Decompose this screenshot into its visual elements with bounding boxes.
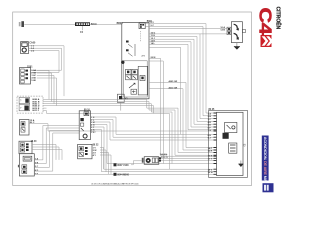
svg-text:2 V: 2 V — [142, 55, 146, 57]
svg-text:C4: C4 — [255, 8, 274, 35]
svg-text:8 H: 8 H — [208, 135, 212, 137]
svg-text:5 6E: 5 6E — [31, 80, 36, 82]
wire heater h6 — [90, 130, 213, 172]
svg-text:80 25: 80 25 — [209, 109, 215, 111]
roof switch component — [231, 22, 242, 43]
wire connector c3 — [37, 76, 54, 104]
blower unit inner box 2 — [229, 143, 237, 153]
Citroen chevron emblem — [261, 35, 274, 47]
blower unit block right — [209, 111, 248, 178]
svg-text:17 T: 17 T — [208, 159, 213, 161]
wire dashed box d2 — [43, 111, 154, 114]
ground blower unit — [238, 164, 243, 167]
wire heater h5 — [90, 127, 213, 169]
wire ignition 3 — [28, 51, 59, 73]
wire control unit f4 — [34, 133, 79, 171]
wire motor out 2 — [161, 160, 214, 162]
BSI switch arrow — [129, 83, 135, 88]
wire dashed box e3 — [43, 104, 172, 164]
wire BSI a1 — [145, 24, 213, 113]
fuse tick wire — [82, 26, 84, 30]
wire motor out 1 — [161, 157, 214, 159]
svg-text:80 22: 80 22 — [93, 144, 99, 146]
svg-text:1 A: 1 A — [35, 158, 39, 161]
roof switch pin 2 — [227, 31, 231, 34]
svg-text:80 10: 80 10 — [84, 109, 90, 111]
blower switch lower — [78, 144, 92, 158]
fuse strip F1 — [75, 22, 90, 26]
svg-text:7 G: 7 G — [208, 130, 212, 132]
svg-text:8044 M000: 8044 M000 — [117, 174, 129, 177]
ground roof switch — [234, 47, 240, 50]
battery supply BB00 — [19, 21, 24, 27]
BSI small box bottom — [131, 89, 137, 94]
label motor — [160, 154, 168, 156]
BSI unit box — [122, 22, 149, 98]
wire control unit f1 — [34, 126, 79, 160]
labels ignition pins — [31, 46, 35, 53]
svg-text:8011 F: 8011 F — [32, 110, 39, 112]
svg-text:8 V: 8 V — [151, 22, 155, 24]
svg-text:8007 V100: 8007 V100 — [117, 165, 129, 167]
wire BSI b2 — [149, 61, 163, 164]
Citroen C4 logo text — [255, 7, 281, 35]
svg-text:CA00: CA00 — [29, 41, 36, 44]
svg-text:7 S: 7 S — [91, 132, 95, 134]
connector block upper-left — [20, 68, 31, 85]
BSI internal dashed line — [140, 31, 142, 42]
svg-text:9 C: 9 C — [151, 25, 155, 27]
svg-text:1 A: 1 A — [208, 112, 212, 115]
labels control unit pins — [35, 158, 39, 176]
labels connector mid-left — [30, 119, 35, 124]
BSI relay box 2 — [132, 69, 137, 74]
wire lower-left g3 — [32, 150, 62, 160]
wire connector c4 — [37, 78, 57, 106]
wire BSI a5 — [149, 39, 214, 124]
svg-text:3 C: 3 C — [208, 119, 212, 121]
wire roof switch ground — [236, 43, 238, 47]
BSI top connector — [139, 23, 145, 29]
svg-text:C001: C001 — [27, 66, 33, 68]
BSI tall inner rect — [138, 66, 148, 95]
wire BSI a2 — [145, 27, 213, 116]
wire dashed box e2 — [43, 102, 214, 156]
svg-text:8036 W: 8036 W — [161, 157, 168, 159]
labels BSI c wires — [169, 80, 178, 89]
page border frame — [13, 12, 252, 186]
wire control unit f5 long bottom — [34, 173, 213, 175]
wire BSI a7 — [149, 44, 214, 129]
wire connector mid-left — [29, 124, 214, 131]
svg-text:12 B: 12 B — [220, 29, 225, 31]
wire BSI c2 — [149, 89, 214, 150]
labels connector pins — [31, 69, 36, 82]
wire dashed box e1 — [43, 99, 214, 152]
wire BSI to roof switch — [149, 27, 227, 29]
connector mid-left — [20, 120, 30, 136]
blue page tab — [263, 183, 274, 192]
svg-text:BB00: BB00 — [91, 23, 98, 26]
wire ignition 1 — [28, 46, 64, 96]
wire control unit f3 — [34, 131, 79, 168]
control unit bottom-left — [18, 154, 34, 176]
wire BSI a4 — [149, 37, 214, 122]
labels blower unit pins lower — [208, 147, 214, 174]
svg-text:ACONDICION. DE AIRE MAN.: ACONDICION. DE AIRE MAN. — [263, 137, 267, 185]
svg-text:14 L: 14 L — [151, 42, 156, 45]
BSI relay box 1 — [126, 69, 131, 74]
wire branch to roof switch pin 2 — [200, 33, 227, 35]
svg-text:11 H: 11 H — [151, 35, 156, 37]
BSI pin square 2 — [126, 49, 129, 51]
wire battery to BSI — [24, 24, 122, 26]
ignition switch component — [21, 42, 29, 54]
BSI relay box 3 — [126, 75, 131, 80]
wire splice to motor — [131, 161, 142, 165]
wire dashed box d1 — [43, 107, 47, 109]
blue sidebar — [262, 136, 269, 185]
wire lower-left g1 — [32, 145, 56, 160]
wire connector c1 — [37, 71, 49, 100]
small relay box under BSI — [117, 94, 124, 102]
wire heater h3 — [90, 122, 213, 140]
wire BSI a3 — [149, 34, 214, 119]
wire BSI b1 — [149, 59, 214, 157]
labels dashed box pins — [32, 98, 39, 112]
svg-text:2 B: 2 B — [208, 116, 212, 118]
BSI relay box 4 — [132, 75, 137, 80]
svg-text:15 R: 15 R — [208, 150, 213, 152]
svg-text:5 E: 5 E — [208, 125, 212, 127]
wire control unit f2 — [34, 128, 79, 164]
wire blower i1 — [100, 148, 104, 170]
labels near blower block stubs — [161, 154, 168, 159]
svg-text:16 S: 16 S — [208, 156, 213, 158]
svg-text:4 D: 4 D — [208, 121, 212, 124]
roof switch right pin — [242, 29, 245, 32]
labels heater pins — [91, 117, 95, 134]
svg-text:16 40: 16 40 — [31, 140, 37, 143]
heater control panel — [79, 111, 90, 140]
wire relay V1 drop — [120, 102, 122, 110]
svg-text:20 M: 20 M — [151, 57, 156, 59]
svg-text:4010 GR: 4010 GR — [169, 86, 178, 89]
wire blower unit ground stem — [240, 161, 242, 165]
wire ignition 2 — [28, 48, 61, 70]
blower unit dark square — [223, 133, 229, 139]
labels roof switch — [220, 26, 225, 32]
dashed box assembly — [17, 96, 43, 113]
labels blower switch pins — [93, 147, 98, 157]
svg-text:4005 GR: 4005 GR — [169, 80, 178, 83]
splice pin bottom — [114, 173, 117, 176]
recirculation motor — [142, 157, 161, 165]
wire connector c2 — [37, 73, 52, 102]
BSI pin square 1 — [126, 41, 129, 43]
wire heater h1 — [90, 117, 213, 134]
svg-text:3 C: 3 C — [35, 166, 39, 168]
svg-text:CITROËN: CITROËN — [274, 7, 281, 30]
svg-text:8035 V: 8035 V — [161, 154, 168, 156]
wire dashed box e4 — [43, 106, 170, 170]
BSI internal switch marks — [128, 44, 135, 56]
wire blower i4 — [100, 155, 111, 174]
splice pin motor feed — [114, 163, 117, 166]
svg-text:4 Y: 4 Y — [93, 154, 97, 157]
svg-text:10 A: 10 A — [220, 26, 225, 29]
wire heater h7 stub — [90, 131, 96, 133]
labels BSI b wires — [142, 55, 156, 59]
wire BSI c1 — [149, 83, 214, 148]
wire lower-left g2 — [32, 147, 59, 160]
wire BSI a8 — [149, 47, 181, 134]
blower unit inner box 1 — [225, 122, 237, 132]
wire heater h4 — [90, 125, 213, 164]
labels BSI right wires — [151, 22, 156, 45]
svg-text:2 B: 2 B — [35, 162, 39, 164]
BSI junction dot — [121, 61, 124, 64]
labels blower unit pins upper — [208, 112, 212, 139]
wire heater h2 — [90, 120, 213, 138]
wire blower i3 — [100, 153, 109, 175]
blower unit pin ticks — [214, 113, 217, 174]
roof switch pin 1 — [227, 27, 231, 31]
wire BSI a6 — [149, 42, 214, 127]
connector lower-left — [19, 141, 32, 154]
wire blower i2 — [100, 150, 106, 172]
